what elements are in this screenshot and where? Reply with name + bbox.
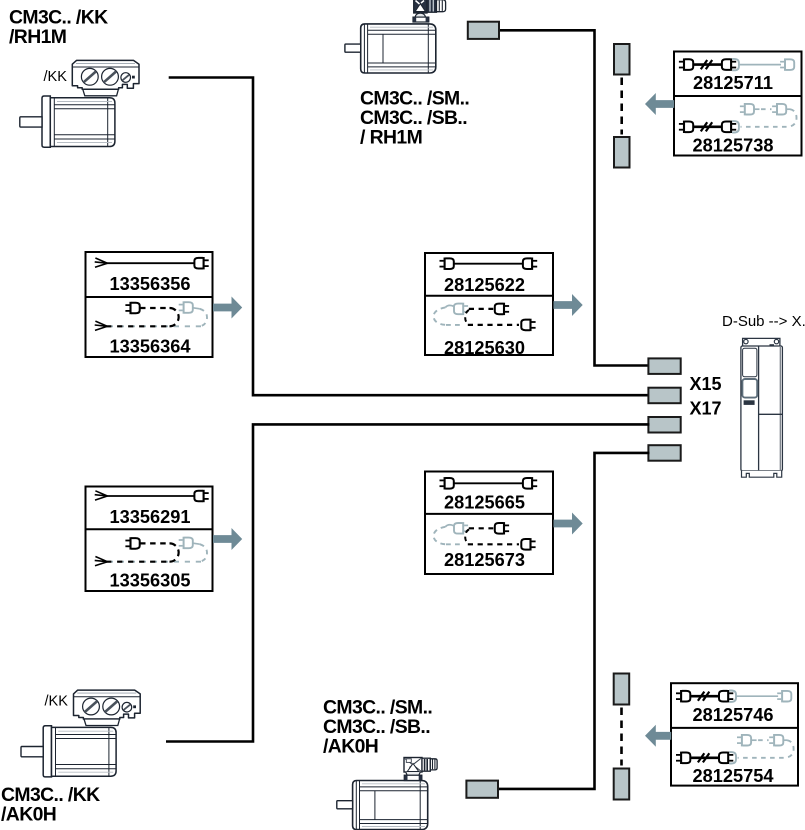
- svg-text:13356291: 13356291: [110, 507, 191, 527]
- cable box 28125711 / 28125738: [674, 52, 802, 156]
- svg-text:28125754: 28125754: [693, 766, 775, 786]
- svg-text:/RH1M: /RH1M: [9, 26, 66, 48]
- cable icon 28125754: [676, 734, 794, 764]
- dashed mating wire (top-right): [620, 78, 623, 135]
- arrow left to dashed link (top-right): [645, 93, 674, 115]
- motor CM3C/KK top-left: [20, 60, 139, 147]
- motor CM3C/KK bottom-left: [21, 690, 140, 777]
- svg-text:X15: X15: [690, 374, 722, 394]
- svg-text:/AK0H: /AK0H: [323, 736, 378, 758]
- wire: drive connector 4 to bottom-center motor plug: [498, 453, 650, 789]
- svg-text:/ RH1M: / RH1M: [360, 127, 422, 149]
- wire: top-center motor plug to drive connector: [499, 30, 650, 365]
- svg-text:/KK: /KK: [44, 69, 68, 85]
- wire: top-left motor to drive connector X15: [169, 78, 650, 396]
- motor CM3C/SM top-center: [345, 24, 436, 73]
- connector plug (gray) at top-center motor: [468, 22, 499, 39]
- cable icon 28125665: [440, 477, 538, 489]
- svg-text:28125711: 28125711: [693, 73, 773, 93]
- cable icon 13356364: [95, 301, 207, 330]
- cable icon 28125738: [679, 103, 797, 133]
- mating connector half A (bottom-right): [614, 674, 630, 705]
- cable box 13356356 / 13356364: [86, 252, 213, 357]
- drive unit drawing: [741, 338, 783, 477]
- cable icon 13356291: [95, 490, 209, 502]
- svg-text:13356356: 13356356: [110, 274, 191, 294]
- cable icon 28125711: [679, 58, 794, 70]
- cable icon 28125746: [676, 690, 791, 702]
- mating connector half B (top-right): [614, 137, 630, 168]
- arrow right from box 28125665: [554, 513, 583, 535]
- arrow right from box 13356356: [213, 297, 242, 319]
- svg-text:/KK: /KK: [45, 694, 69, 710]
- svg-text:28125665: 28125665: [444, 493, 525, 513]
- angled connector on top-center motor: [413, 0, 446, 22]
- drive connector X17: [648, 417, 680, 433]
- cable icon 13356305: [95, 537, 207, 566]
- drive connector 4 (to bottom-center motor): [648, 445, 680, 461]
- cable box 13356291 / 13356305: [86, 487, 213, 592]
- title CM3C.. /SM.. /SB.. /AK0H (bottom-center): [323, 697, 432, 758]
- arrow left to dashed link (bottom-right): [645, 725, 671, 747]
- connector plug (gray) at bottom-center motor: [466, 781, 498, 798]
- svg-text:28125746: 28125746: [693, 705, 774, 725]
- arrow right from box 28125622: [554, 294, 583, 316]
- mating connector half A (top-right): [614, 44, 630, 75]
- motor CM3C/SM bottom-center: [337, 781, 428, 830]
- mating connector half B (bottom-right): [614, 769, 630, 800]
- svg-text:28125673: 28125673: [444, 550, 525, 570]
- drive connector X15: [648, 388, 680, 404]
- svg-text:28125738: 28125738: [693, 136, 774, 156]
- cable icon 13356356: [95, 257, 209, 269]
- title CM3C.. /SM.. /SB.. /RH1M (top-center): [360, 88, 469, 149]
- cable icon 28125630: [434, 303, 536, 331]
- cable box 28125746 / 28125754: [671, 683, 798, 786]
- svg-text:D-Sub --> X..: D-Sub --> X..: [722, 313, 805, 330]
- title CM3C.. /KK /AK0H (bottom-left): [1, 784, 100, 826]
- dashed mating wire (bottom-right): [620, 708, 623, 766]
- drive connector 1 (from top-center motor): [648, 358, 680, 374]
- svg-text:28125630: 28125630: [444, 338, 525, 358]
- angled connector on bottom-center motor: [404, 758, 437, 781]
- cable box 28125622 / 28125630: [425, 253, 553, 358]
- cable icon 28125673: [434, 522, 536, 550]
- svg-text:13356364: 13356364: [110, 337, 192, 357]
- title CM3C.. /KK /RH1M (top-left): [9, 7, 108, 49]
- svg-text:28125622: 28125622: [444, 275, 525, 295]
- arrow right from box 13356291: [213, 528, 242, 550]
- wire: bottom-left motor to drive connector X17: [166, 424, 650, 741]
- svg-text:13356305: 13356305: [110, 570, 191, 590]
- svg-text:X17: X17: [690, 399, 722, 419]
- cable icon 28125622: [440, 258, 538, 270]
- cable box 28125665 / 28125673: [425, 472, 553, 575]
- svg-text:/AK0H: /AK0H: [1, 804, 56, 826]
